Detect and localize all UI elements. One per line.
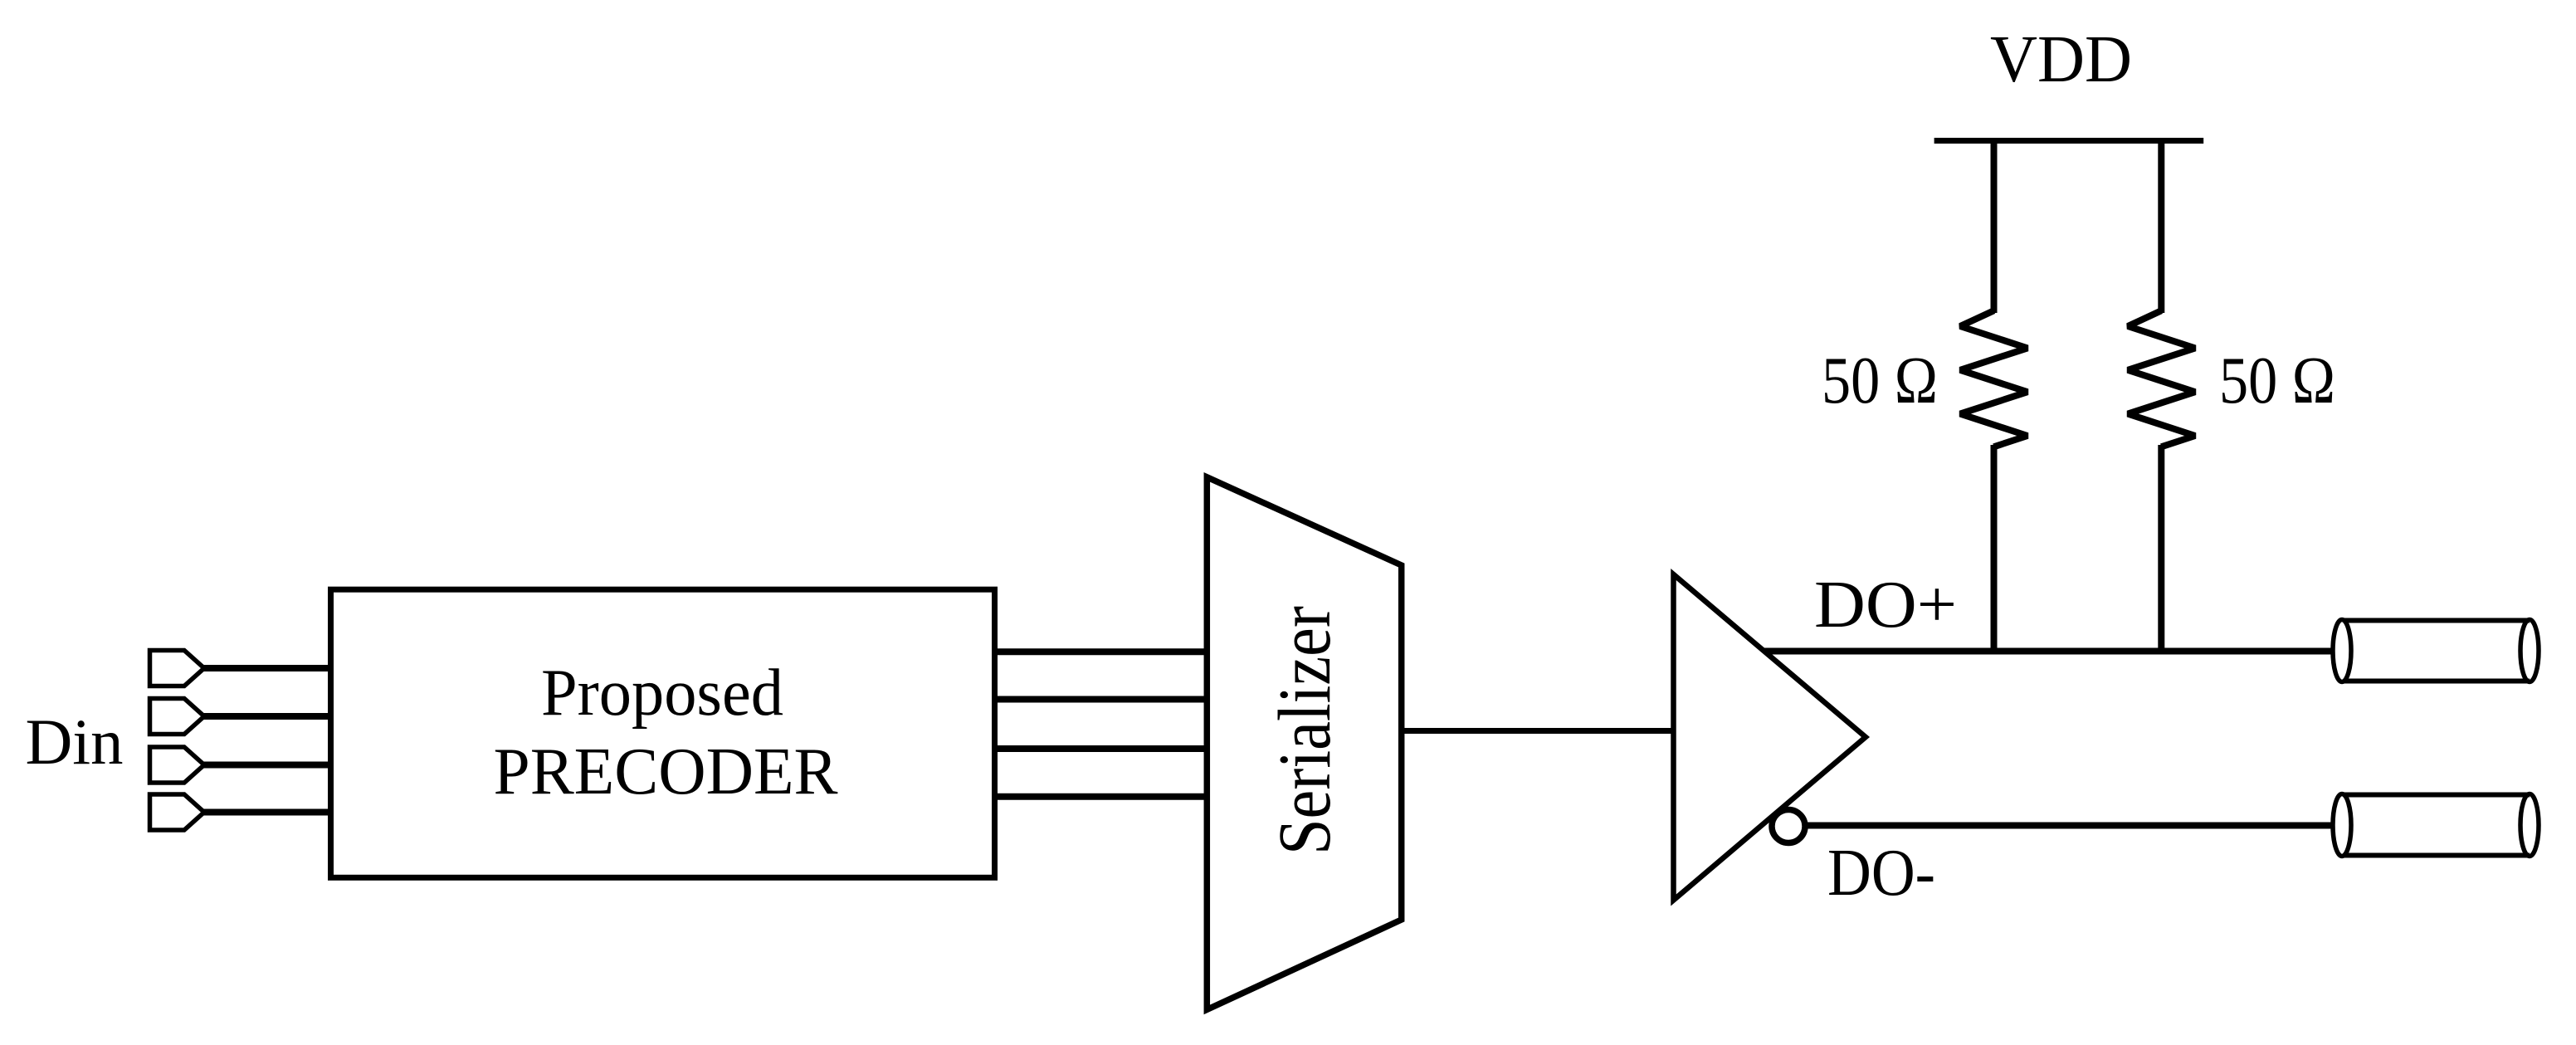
wire pin1 to precoder bbox=[202, 665, 332, 671]
termination T1 right cap bbox=[2520, 620, 2539, 682]
svg-text:VDD: VDD bbox=[1990, 23, 2132, 96]
inverter bubble bbox=[1772, 810, 1805, 843]
wire R2 to DO+ bbox=[2158, 445, 2164, 654]
termination T2 body top bbox=[2342, 793, 2530, 798]
termination T2 right cap bbox=[2520, 794, 2539, 857]
input pin 3 bbox=[150, 747, 205, 783]
resistor R2 50ohm bbox=[2128, 310, 2195, 447]
svg-text:Din: Din bbox=[26, 706, 124, 778]
termination T2 left cap bbox=[2333, 794, 2351, 857]
wire serializer to driver bbox=[1401, 728, 1675, 734]
wire pin4 to precoder bbox=[202, 809, 332, 816]
termination T1 body bottom bbox=[2342, 679, 2530, 684]
svg-text:50 Ω: 50 Ω bbox=[2219, 344, 2335, 418]
wire DO- net bbox=[1805, 823, 2334, 829]
output driver U3 bbox=[1674, 574, 1866, 901]
wire VDD to R1 bbox=[1991, 138, 1998, 313]
input pin 1 bbox=[150, 651, 205, 686]
svg-text:Serializer: Serializer bbox=[1264, 606, 1346, 855]
resistor R1 50ohm bbox=[1960, 310, 2027, 447]
svg-text:50 Ω: 50 Ω bbox=[1822, 344, 1938, 418]
input pin 2 bbox=[150, 699, 205, 735]
termination T1 body top bbox=[2342, 618, 2530, 623]
input pin 4 bbox=[150, 794, 205, 830]
svg-text:DO+: DO+ bbox=[1814, 569, 1957, 642]
wire precoder to serializer bit 2 bbox=[992, 696, 1208, 703]
termination T1 left cap bbox=[2333, 620, 2351, 682]
wire R1 to DO+ bbox=[1991, 445, 1998, 654]
termination T2 body bottom bbox=[2342, 853, 2530, 858]
wire precoder to serializer bit 4 bbox=[992, 794, 1208, 800]
power VDD rail bbox=[1934, 138, 2204, 144]
precoder block U1 bbox=[331, 589, 995, 877]
svg-text:DO-: DO- bbox=[1827, 837, 1935, 910]
wire DO+ net bbox=[1764, 648, 2334, 655]
wire precoder to serializer bit 3 bbox=[992, 745, 1208, 752]
wire VDD to R2 bbox=[2158, 138, 2164, 313]
wire precoder to serializer bit 1 bbox=[992, 648, 1208, 655]
wire pin3 to precoder bbox=[202, 762, 332, 769]
serializer mux U2 bbox=[1207, 477, 1401, 1010]
wire pin2 to precoder bbox=[202, 713, 332, 720]
svg-text:PRECODER: PRECODER bbox=[494, 735, 839, 808]
svg-text:Proposed: Proposed bbox=[541, 657, 783, 730]
